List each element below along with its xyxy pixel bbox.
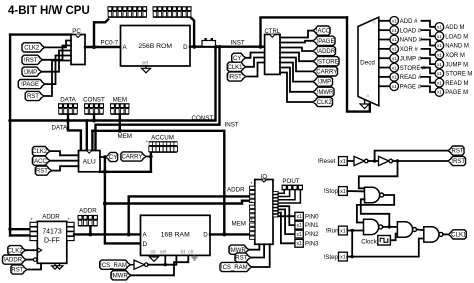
wire IO to PIN0 bbox=[278, 215, 295, 217]
svg-text:!Run: !Run bbox=[326, 228, 340, 235]
clock generator bbox=[378, 236, 391, 246]
svg-text:x1: x1 bbox=[392, 75, 397, 80]
svg-text:x1: x1 bbox=[437, 71, 442, 76]
svg-text:LOAD M: LOAD M bbox=[445, 34, 468, 40]
svg-text:x1: x1 bbox=[296, 223, 302, 229]
wire !Run branch down bbox=[351, 231, 353, 257]
svg-text:ADD M: ADD M bbox=[445, 25, 464, 31]
wire !JMP to PC bbox=[42, 51, 72, 72]
svg-text:STORE #: STORE # bbox=[400, 66, 426, 72]
svg-text:+: + bbox=[250, 218, 253, 223]
node INST branch bbox=[218, 45, 222, 49]
svg-text:!RST: !RST bbox=[451, 159, 465, 165]
ground ROM sel bbox=[142, 68, 151, 73]
wire Clock to NAND U14 bbox=[390, 234, 397, 241]
svg-text:x1: x1 bbox=[392, 65, 397, 70]
svg-text:x1: x1 bbox=[340, 228, 346, 234]
inverter U16 (!CS_RAM) bbox=[130, 264, 134, 266]
memory 16B RAM bbox=[141, 215, 211, 255]
wire U13 out to U14 bbox=[383, 226, 398, 228]
tag RST (ALU) bbox=[35, 166, 51, 175]
svg-text:D: D bbox=[203, 232, 208, 239]
node ADDR header tap bbox=[88, 232, 92, 236]
wire ADDR header drop bbox=[89, 226, 91, 234]
tag !MWR (IO) bbox=[229, 245, 249, 254]
wire DATA to ALU bbox=[68, 121, 81, 151]
svg-text:XOR M: XOR M bbox=[445, 53, 465, 59]
svg-text:x1: x1 bbox=[437, 62, 442, 67]
node ADDR to IO tap bbox=[127, 232, 131, 236]
driver x1 PIN2 bbox=[295, 230, 303, 238]
svg-text:sel: sel bbox=[160, 249, 167, 255]
svg-text:x1: x1 bbox=[340, 159, 346, 165]
ground RAM str bbox=[150, 257, 159, 262]
driver x1 PIN0 bbox=[295, 212, 303, 220]
node DATA on bus bbox=[66, 119, 70, 123]
wire Decd out ADD # bbox=[379, 20, 390, 22]
tag RST (IO) bbox=[235, 253, 251, 262]
driver x1 PIN3 bbox=[295, 239, 303, 247]
svg-text:LOAD #: LOAD # bbox=[400, 28, 422, 34]
svg-text:!RST: !RST bbox=[24, 58, 38, 64]
svg-text:!ACC: !ACC bbox=[33, 159, 48, 165]
node CY junction bbox=[103, 155, 107, 159]
connector header ACCUM bbox=[149, 141, 178, 146]
svg-text:!MWR: !MWR bbox=[317, 90, 334, 96]
svg-text:!JMP: !JMP bbox=[317, 80, 331, 86]
tag !JMP (PC input) bbox=[22, 67, 42, 76]
wire READ # to READ M bbox=[422, 77, 436, 83]
svg-text:x1: x1 bbox=[392, 84, 397, 89]
nand U12 (stop latch) bbox=[365, 187, 380, 202]
svg-text:RST: RST bbox=[36, 169, 48, 175]
svg-text:256B ROM: 256B ROM bbox=[138, 43, 172, 50]
wire CONST to PC top bbox=[10, 33, 71, 35]
svg-text:!MWR: !MWR bbox=[111, 273, 128, 279]
svg-text:!Step: !Step bbox=[324, 254, 339, 261]
wire !PAGE to PC bbox=[45, 56, 71, 85]
wire CTRL out !ACC bbox=[280, 31, 313, 38]
node !Run branch bbox=[351, 229, 354, 232]
input !Run (x1) bbox=[339, 226, 348, 235]
tag CLK1 (output) bbox=[448, 230, 466, 239]
svg-text:CLK2: CLK2 bbox=[8, 248, 24, 254]
wire DATA header drop bbox=[67, 114, 69, 120]
wire decoder select stub bbox=[364, 100, 366, 104]
svg-text:x1: x1 bbox=[437, 90, 442, 95]
wire U15 to CLK1 bbox=[443, 233, 448, 235]
wire ADDR to IO bbox=[129, 196, 250, 234]
svg-text:CLK2: CLK2 bbox=[317, 100, 333, 106]
tag RST (PC input) bbox=[25, 91, 44, 100]
nand U14 (clock gate) bbox=[397, 222, 412, 237]
wire !RST to PC bbox=[43, 46, 72, 60]
svg-text:CLK2: CLK2 bbox=[24, 46, 40, 52]
svg-text:IRST: IRST bbox=[228, 75, 242, 81]
wire bus to D-FF pin1 bbox=[10, 228, 30, 230]
svg-text:CY: CY bbox=[233, 56, 241, 62]
tag !PAGE (PC input) bbox=[18, 80, 45, 89]
wire U12 out cross-couple to U13 bbox=[357, 195, 394, 223]
output pin XOR # (x1) bbox=[390, 45, 399, 54]
node PC0-7 junction bbox=[92, 45, 96, 49]
input !Stop (x1) bbox=[339, 187, 348, 196]
node INST to decoder riser bbox=[259, 45, 263, 49]
nand U15 (CLK1 output) bbox=[424, 227, 439, 242]
svg-text:PAGE #: PAGE # bbox=[400, 84, 422, 90]
nand U13 (run latch) bbox=[364, 219, 379, 234]
wire IO to PIN1 bbox=[278, 206, 295, 225]
svg-text:!Reset: !Reset bbox=[318, 158, 336, 165]
svg-text:!ADDR: !ADDR bbox=[316, 49, 335, 55]
connector header POUT bbox=[282, 185, 304, 191]
tag RST (74173) bbox=[11, 265, 27, 274]
wire JUMP # to JUMP M bbox=[422, 58, 436, 64]
node CONST on bus bbox=[92, 119, 96, 123]
wire bus to D-FF pin2 bbox=[10, 234, 30, 236]
connector header CONST bbox=[84, 103, 104, 108]
svg-text:!PAGE: !PAGE bbox=[21, 82, 39, 88]
wire CTRL out !JMP bbox=[280, 63, 313, 82]
svg-text:READ #: READ # bbox=[400, 75, 422, 81]
wire !MWR to RAM ld bbox=[131, 255, 188, 275]
input pin LOAD M (x1) bbox=[435, 32, 444, 41]
node RAM sel bbox=[164, 263, 167, 266]
svg-text:PC: PC bbox=[72, 28, 81, 35]
tag !RST (output) bbox=[448, 156, 466, 165]
svg-text:CARRY: CARRY bbox=[316, 70, 337, 76]
node !RST feedback tap bbox=[396, 159, 399, 162]
wire IRST to CTRL bbox=[246, 63, 265, 77]
wire PAGE # to PAGE M bbox=[422, 86, 436, 92]
svg-text:ld: ld bbox=[181, 249, 185, 255]
pins IO right bbox=[273, 192, 278, 195]
wire !RST net bbox=[393, 160, 448, 162]
wire PC0-7 bus PC to ROM A bbox=[85, 46, 121, 48]
node on !Step rail bbox=[351, 255, 354, 258]
node D junction 1 bbox=[192, 45, 196, 49]
svg-text:RST: RST bbox=[452, 149, 464, 155]
wire PC0-7 riser to header bbox=[94, 19, 108, 47]
svg-text:x1: x1 bbox=[437, 53, 442, 58]
svg-text:sel: sel bbox=[142, 61, 149, 67]
tag CARRY bbox=[121, 152, 146, 161]
wire RST net bbox=[375, 151, 448, 161]
wire U16 out to RAM sel/ld bbox=[148, 255, 176, 264]
svg-text:CARRY: CARRY bbox=[121, 155, 142, 161]
wire CY to CTRL bbox=[246, 53, 265, 58]
svg-text:x1: x1 bbox=[340, 189, 346, 195]
io IO bbox=[255, 180, 273, 245]
wire CTRL out !STORE bbox=[280, 53, 313, 62]
svg-text:x1: x1 bbox=[392, 37, 397, 42]
node left bus to D-FF bbox=[8, 227, 12, 231]
node run latch out bbox=[388, 225, 391, 228]
svg-text:x1: x1 bbox=[437, 80, 442, 85]
wire IO to PIN2 bbox=[278, 209, 295, 234]
svg-text:RST: RST bbox=[11, 268, 23, 274]
svg-text:+: + bbox=[250, 181, 253, 186]
tag !CS_RAM (RAM) bbox=[100, 260, 131, 269]
node MEM on data line bbox=[118, 129, 122, 133]
output pin NAND # (x1) bbox=[390, 35, 399, 44]
svg-text:!ACC: !ACC bbox=[316, 29, 331, 35]
output pin STORE # (x1) bbox=[390, 63, 399, 72]
svg-text:PIN3: PIN3 bbox=[305, 240, 319, 247]
svg-text:!PAGE: !PAGE bbox=[317, 39, 335, 45]
wire RAM str stub bbox=[153, 255, 155, 257]
svg-text:x1: x1 bbox=[392, 47, 397, 52]
svg-text:!CS_RAM: !CS_RAM bbox=[100, 263, 127, 269]
svg-text:MEM: MEM bbox=[113, 97, 127, 104]
ground RAM clr (small) bbox=[191, 255, 197, 260]
wire !Step rail to NAND U15 bbox=[347, 239, 424, 257]
tag !PAGE (CTRL output) bbox=[313, 36, 335, 45]
svg-text:NAND #: NAND # bbox=[400, 38, 423, 44]
alu ALU bbox=[79, 151, 101, 172]
output pin PAGE # (x1) bbox=[390, 82, 399, 91]
input !Reset (x1) bbox=[339, 157, 348, 166]
driver x1 PIN1 bbox=[295, 221, 303, 229]
svg-text:PIN2: PIN2 bbox=[305, 231, 319, 238]
wire CTRL out !MWR bbox=[280, 68, 313, 92]
output pin LOAD # (x1) bbox=[390, 26, 399, 35]
svg-text:!CS_RAM: !CS_RAM bbox=[221, 265, 248, 271]
connector header J2 (data bus) bbox=[153, 6, 192, 11]
connector header J1 (address bus) bbox=[107, 6, 147, 11]
wire Decd out STORE # bbox=[379, 67, 390, 69]
ground 74173 b bbox=[56, 266, 63, 269]
wire !ADDR to 74173 (inverted) bbox=[26, 259, 34, 261]
tag CLK2 (74173) bbox=[8, 246, 26, 255]
svg-text:+: + bbox=[67, 217, 70, 222]
input pin PAGE M (x1) bbox=[435, 88, 444, 97]
svg-text:JUMP #: JUMP # bbox=[400, 56, 422, 62]
svg-text:CLK2: CLK2 bbox=[32, 149, 48, 155]
svg-text:NAND M: NAND M bbox=[445, 44, 469, 50]
node RST tap bbox=[373, 159, 376, 162]
svg-text:CONST: CONST bbox=[83, 97, 105, 104]
connector header DATA bbox=[58, 103, 78, 108]
output pin ADD # (x1) bbox=[390, 17, 399, 26]
wire CTRL out CARRY bbox=[280, 58, 313, 72]
svg-text:MEM: MEM bbox=[232, 220, 246, 227]
svg-text:PIN1: PIN1 bbox=[305, 222, 319, 229]
wire decoder select feed bbox=[347, 17, 370, 111]
input pin STORE M (x1) bbox=[435, 69, 444, 78]
wire XOR # to XOR M bbox=[422, 49, 436, 55]
tag !JMP (CTRL output) bbox=[313, 77, 333, 86]
input pin ADD M (x1) bbox=[435, 23, 444, 32]
svg-text:D: D bbox=[183, 44, 188, 51]
svg-text:RST: RST bbox=[235, 256, 247, 262]
tag !MWR (CTRL output) bbox=[313, 87, 334, 96]
wire data to IO bbox=[105, 201, 250, 204]
wire CTRL out !ADDR bbox=[280, 48, 313, 52]
pins 74173 left bbox=[30, 222, 37, 226]
svg-text:!JMP: !JMP bbox=[23, 70, 37, 76]
wire CLK2 to 74173 clock bbox=[25, 249, 37, 251]
svg-text:JUMP M: JUMP M bbox=[445, 62, 468, 68]
wire ACCUM header drop bbox=[150, 152, 152, 172]
svg-text:INST: INST bbox=[231, 39, 245, 46]
wire !RST feedback to NAND U12 bbox=[359, 161, 398, 188]
svg-text:ACCUM: ACCUM bbox=[151, 135, 174, 142]
pins 74173 right bbox=[67, 222, 74, 226]
svg-text:ADDR: ADDR bbox=[42, 214, 60, 221]
svg-text:x1: x1 bbox=[437, 25, 442, 30]
wire IO to PIN3 bbox=[278, 213, 295, 244]
tag !ACC (ALU) bbox=[32, 156, 50, 165]
wire Decd out JUMP # bbox=[379, 57, 390, 59]
input pin JUMP M (x1) bbox=[435, 60, 444, 69]
wire header J2 to ROM D net bbox=[191, 18, 194, 47]
register 74173 D-FF bbox=[37, 221, 67, 263]
tag RST (output) bbox=[448, 146, 464, 155]
wire ADD # to ADD M bbox=[422, 21, 436, 27]
tag !RST (PC input) bbox=[22, 55, 43, 64]
svg-text:16B RAM: 16B RAM bbox=[161, 231, 190, 238]
wire RST to PC bbox=[44, 61, 71, 97]
wire U14 to U15 bbox=[417, 229, 424, 232]
node CARRY junction bbox=[149, 155, 153, 159]
wire data bus down to RAM D bbox=[105, 157, 141, 243]
wire CLK2 to PC bbox=[45, 41, 72, 48]
svg-text:PC0-7: PC0-7 bbox=[101, 40, 119, 47]
svg-text:x1: x1 bbox=[392, 56, 397, 61]
wire IO to POUT pin 0 bbox=[278, 190, 284, 193]
svg-text:CY: CY bbox=[109, 155, 117, 161]
svg-text:4-BIT H/W CPU: 4-BIT H/W CPU bbox=[8, 5, 90, 17]
ground 74173 a bbox=[52, 266, 59, 269]
wire RAM sel stub bbox=[164, 255, 166, 264]
wire CONST header drop bbox=[93, 114, 95, 120]
tag CLK2 (PC input) bbox=[22, 43, 45, 52]
svg-text:!Stop: !Stop bbox=[324, 188, 339, 195]
wire !Run to NAND U13 bbox=[347, 230, 363, 232]
svg-text:x1: x1 bbox=[392, 19, 397, 24]
svg-text:CLK1: CLK1 bbox=[227, 65, 243, 71]
svg-text:D: D bbox=[143, 241, 148, 248]
decoder Decd bbox=[358, 17, 379, 106]
wire CTRL out CLK2 bbox=[280, 73, 313, 103]
wire !Stop to NAND U12 bbox=[347, 190, 364, 192]
svg-text:x1: x1 bbox=[296, 214, 302, 220]
wire RST to ALU bbox=[52, 166, 79, 170]
wire Decd out XOR # bbox=[379, 48, 390, 50]
wire IO to POUT pin 2 bbox=[278, 190, 295, 199]
svg-text:POUT: POUT bbox=[282, 178, 299, 185]
node CONST bus junction bbox=[8, 119, 12, 123]
wire MEM header drop bbox=[119, 114, 121, 131]
svg-text:DATA: DATA bbox=[60, 97, 76, 104]
svg-text:ADD #: ADD # bbox=[400, 19, 418, 25]
wire 74173 ground stubs bbox=[54, 263, 56, 266]
tag CARRY (CTRL output) bbox=[313, 67, 338, 76]
wire CLK1 to CTRL bbox=[246, 58, 265, 67]
connector header ADDR bbox=[78, 215, 99, 220]
tag !ADDR (CTRL output) bbox=[313, 46, 336, 55]
input pin XOR M (x1) bbox=[435, 51, 444, 60]
svg-text:x1: x1 bbox=[340, 255, 346, 261]
svg-text:D-FF: D-FF bbox=[44, 238, 60, 245]
input pin NAND M (x1) bbox=[435, 41, 444, 50]
wire Decd out NAND # bbox=[379, 39, 390, 41]
wire U13 out cross-couple to U12 bbox=[361, 199, 390, 227]
wire Decd out LOAD # bbox=[379, 29, 390, 31]
svg-text:RST: RST bbox=[27, 94, 39, 100]
input pin READ M (x1) bbox=[435, 78, 444, 87]
svg-text:Clock: Clock bbox=[361, 238, 377, 245]
svg-text:ALU: ALU bbox=[83, 158, 96, 165]
svg-text:!STORE: !STORE bbox=[316, 59, 338, 65]
controller CTRL bbox=[265, 34, 280, 74]
svg-text:IO: IO bbox=[261, 174, 268, 180]
register PC bbox=[71, 35, 85, 65]
wire RST from IO bbox=[251, 244, 265, 257]
svg-text:PAGE M: PAGE M bbox=[445, 90, 468, 96]
tag !ACC (CTRL output) bbox=[313, 26, 330, 35]
wire ALU carry to CY bbox=[100, 156, 106, 158]
svg-text:!ADDR: !ADDR bbox=[3, 258, 22, 264]
wire left CONST bus vertical bbox=[9, 35, 11, 236]
output pin READ # (x1) bbox=[390, 73, 399, 82]
input !Step (x1) bbox=[339, 252, 348, 261]
svg-text:x1: x1 bbox=[392, 28, 397, 33]
wire INST to decoder bus (top) bbox=[261, 17, 348, 46]
tag !MWR (RAM) bbox=[111, 271, 131, 280]
tag CLK1 (CTRL input) bbox=[227, 62, 245, 71]
inverter U10 bbox=[354, 156, 365, 165]
wire RST to 74173 bbox=[27, 263, 41, 269]
wire ALU sum out bbox=[100, 171, 151, 173]
wire !ACC to ALU bbox=[50, 160, 79, 162]
svg-text:CLK1: CLK1 bbox=[451, 233, 467, 239]
wire STORE # to STORE M bbox=[422, 68, 436, 74]
memory 256B ROM bbox=[121, 26, 191, 67]
inverter U11 bbox=[379, 156, 390, 165]
node CONST branch bbox=[214, 45, 218, 49]
tag CLK2 (ALU) bbox=[32, 147, 50, 156]
output pin JUMP # (x1) bbox=[390, 54, 399, 63]
svg-text:ADDR: ADDR bbox=[79, 208, 97, 215]
node data bus to IO wire bbox=[103, 202, 107, 206]
tag !ADDR (74173) bbox=[3, 255, 26, 264]
svg-text:x1: x1 bbox=[437, 34, 442, 39]
svg-text:x1: x1 bbox=[296, 241, 302, 247]
wire !CS_RAM from IO bbox=[252, 244, 270, 267]
wire Decd out PAGE # bbox=[379, 85, 390, 87]
tag !CS_RAM (IO) bbox=[220, 262, 252, 271]
wire ROM D to CTRL (INST) bbox=[190, 46, 265, 48]
ground decoder select bbox=[360, 104, 369, 109]
wire IO to POUT pin 3 bbox=[278, 190, 300, 203]
svg-text:Decd: Decd bbox=[360, 60, 375, 67]
svg-text:DATA: DATA bbox=[52, 125, 68, 132]
node MEM line joins RAM D wire bbox=[222, 232, 226, 236]
wire !MWR from IO bbox=[249, 244, 260, 249]
svg-text:clr: clr bbox=[188, 249, 194, 255]
wire LOAD # to LOAD M bbox=[422, 30, 436, 36]
clock wedge 74173 bbox=[37, 248, 41, 253]
wire RAM D to IO MEM pins bbox=[210, 233, 250, 235]
wire ADDR bus 74173 to RAM A bbox=[74, 233, 140, 235]
wire MEM line to ALU bbox=[91, 131, 93, 151]
svg-text:READ M: READ M bbox=[445, 81, 468, 87]
tag !STORE (CTRL output) bbox=[313, 57, 339, 66]
svg-text:PIN0: PIN0 bbox=[305, 213, 319, 220]
svg-text:ADDR: ADDR bbox=[227, 186, 245, 193]
